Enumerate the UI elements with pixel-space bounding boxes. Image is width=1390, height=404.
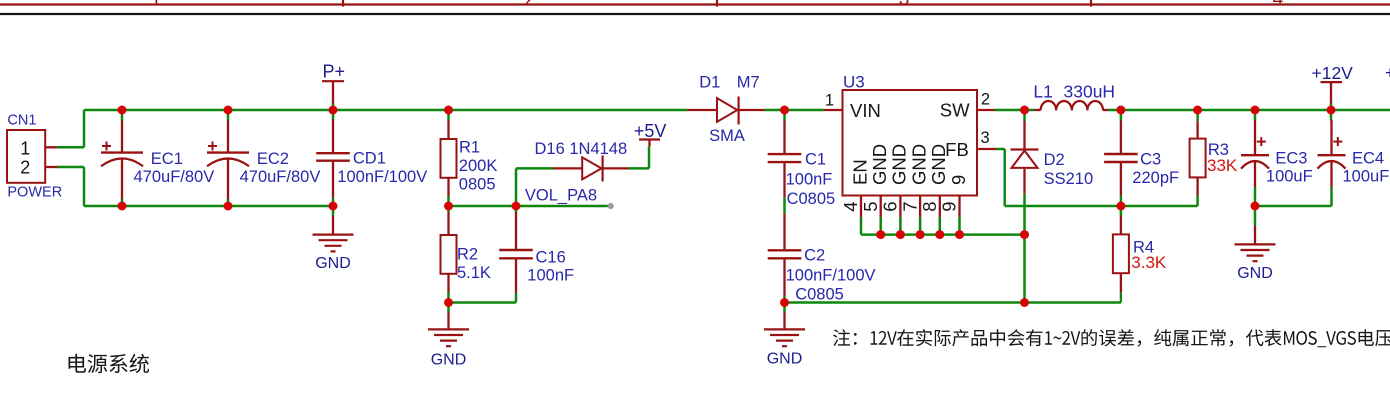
svg-text:3.3K: 3.3K <box>1131 253 1167 272</box>
capacitor C16 100nF <box>499 212 533 293</box>
capacitor EC2 (electrolytic 470uF/80V) <box>207 121 249 200</box>
svg-text:EC2: EC2 <box>257 150 289 168</box>
U3 bottom pin 6 (GND) <box>880 144 910 217</box>
svg-text:D1: D1 <box>699 73 720 91</box>
U3 bottom pin 7 (GND) <box>899 144 929 217</box>
capacitor C3 220pF <box>1104 121 1138 196</box>
svg-text:GND: GND <box>767 351 803 368</box>
power port +12V <box>1312 63 1354 110</box>
resistor R3 33K <box>1190 121 1206 195</box>
svg-text:SS210: SS210 <box>1044 170 1094 188</box>
resistor R2 5.1K <box>441 212 457 292</box>
svg-text:CD1: CD1 <box>353 150 386 168</box>
svg-text:1: 1 <box>20 138 30 158</box>
svg-text:100nF/100V: 100nF/100V <box>786 266 876 284</box>
diode D1 M7 (SMA) <box>687 97 764 125</box>
svg-text:2: 2 <box>525 0 536 10</box>
svg-text:200K: 200K <box>459 157 498 175</box>
svg-text:4: 4 <box>840 202 861 212</box>
svg-text:GND: GND <box>315 255 351 272</box>
svg-text:33K: 33K <box>1207 156 1238 175</box>
svg-text:100uF: 100uF <box>1343 167 1390 185</box>
svg-text:D16 1N4148: D16 1N4148 <box>535 140 628 158</box>
svg-text:4: 4 <box>1273 0 1284 10</box>
svg-text:3: 3 <box>981 129 990 147</box>
svg-text:7: 7 <box>899 202 920 212</box>
resistor R1 200K 0805 <box>441 120 457 196</box>
sheet border: inner black line <box>0 13 1390 15</box>
svg-text:1: 1 <box>151 0 162 10</box>
svg-text:VIN: VIN <box>850 100 881 121</box>
ground symbol GND below CD1 <box>313 216 354 272</box>
svg-text:C2: C2 <box>804 246 825 264</box>
svg-text:SW: SW <box>940 100 970 121</box>
svg-text:6: 6 <box>880 202 901 212</box>
svg-text:1: 1 <box>825 92 834 110</box>
svg-text:3: 3 <box>899 0 910 10</box>
svg-text:GND: GND <box>889 144 910 185</box>
svg-text:+: + <box>1385 62 1390 82</box>
svg-text:R2: R2 <box>457 245 478 263</box>
connector CN1 <box>7 130 57 183</box>
svg-text:EC3: EC3 <box>1275 150 1307 168</box>
svg-text:GND: GND <box>928 144 949 185</box>
svg-text:GND: GND <box>908 144 929 185</box>
sheet border: outer red edge line with zone ticks <box>0 0 1390 10</box>
wire end marker (gray dot) <box>608 203 614 209</box>
sheet title text 电源系统 <box>69 354 150 373</box>
svg-text:100nF: 100nF <box>786 170 833 188</box>
svg-text:5: 5 <box>860 202 881 212</box>
svg-text:SMA: SMA <box>709 127 745 145</box>
svg-text:CN1: CN1 <box>7 113 36 129</box>
svg-text:C0805: C0805 <box>795 286 844 304</box>
svg-text:EC4: EC4 <box>1352 150 1384 168</box>
svg-text:100uF: 100uF <box>1266 167 1313 185</box>
U3 bottom pin 9 (9) <box>939 175 969 217</box>
schottky diode D2 SS210 <box>1011 121 1039 194</box>
U3 ground-pins bus wire <box>861 217 1025 235</box>
svg-text:5.1K: 5.1K <box>457 264 491 282</box>
svg-text:C3: C3 <box>1140 150 1161 168</box>
svg-text:2: 2 <box>20 158 30 178</box>
svg-text:9: 9 <box>948 175 969 185</box>
capacitor EC3 100uF (electrolytic) <box>1241 120 1269 187</box>
svg-text:100nF/100V: 100nF/100V <box>337 168 427 186</box>
ground symbol GND below R2 <box>428 312 469 369</box>
svg-text:+5V: +5V <box>634 121 667 141</box>
svg-text:R1: R1 <box>459 138 480 156</box>
svg-text:M7: M7 <box>737 73 760 91</box>
capacitor EC1 (electrolytic 470uF/80V) <box>101 121 143 200</box>
svg-text:P+: P+ <box>323 62 346 82</box>
svg-text:C0805: C0805 <box>787 190 836 208</box>
svg-text:EC1: EC1 <box>151 150 183 168</box>
svg-text:9: 9 <box>939 202 960 212</box>
ground symbol GND below EC3 <box>1235 226 1276 283</box>
svg-text:0805: 0805 <box>459 176 496 194</box>
regulator U3 <box>824 90 996 196</box>
svg-text:330uH: 330uH <box>1064 81 1116 101</box>
power port +5V <box>634 121 667 147</box>
capacitor EC4 100uF (electrolytic) <box>1318 120 1346 187</box>
svg-text:EN: EN <box>849 159 870 185</box>
svg-text:2: 2 <box>981 91 990 109</box>
capacitor C1 100nF C0805 <box>768 121 802 198</box>
svg-text:GND: GND <box>1237 265 1273 282</box>
diode D16 1N4148 <box>554 155 629 181</box>
svg-text:220pF: 220pF <box>1132 169 1179 187</box>
svg-text:U3: U3 <box>843 73 865 92</box>
U3 bottom pin 8 (GND) <box>919 144 949 217</box>
capacitor CD1 100nF/100V <box>316 120 350 199</box>
capacitor C2 100nF/100V C0805 <box>768 214 802 296</box>
svg-text:100nF: 100nF <box>527 266 574 284</box>
svg-text:POWER: POWER <box>7 185 62 201</box>
wire segments (net) <box>57 110 1390 312</box>
svg-text:8: 8 <box>919 202 940 212</box>
svg-text:C1: C1 <box>805 151 826 169</box>
svg-text:470uF/80V: 470uF/80V <box>240 168 321 186</box>
svg-text:470uF/80V: 470uF/80V <box>134 168 215 186</box>
U3 bottom pin 5 (GND) <box>860 144 890 217</box>
svg-text:GND: GND <box>431 352 467 369</box>
ground symbol GND below C2 <box>764 312 805 368</box>
resistor R4 3.3K <box>1113 216 1129 303</box>
inductor L1 330uH <box>1035 101 1109 110</box>
svg-text:D2: D2 <box>1044 151 1065 169</box>
U3 bottom pin 4 (EN) <box>840 159 870 217</box>
svg-text:+12V: +12V <box>1312 63 1354 83</box>
svg-text:VOL_PA8: VOL_PA8 <box>525 186 597 204</box>
svg-text:GND: GND <box>869 144 890 185</box>
note text about 12V tolerance <box>833 329 1390 347</box>
power port P+ <box>322 62 345 110</box>
svg-text:C16: C16 <box>536 248 566 266</box>
svg-text:L1: L1 <box>1033 81 1052 101</box>
